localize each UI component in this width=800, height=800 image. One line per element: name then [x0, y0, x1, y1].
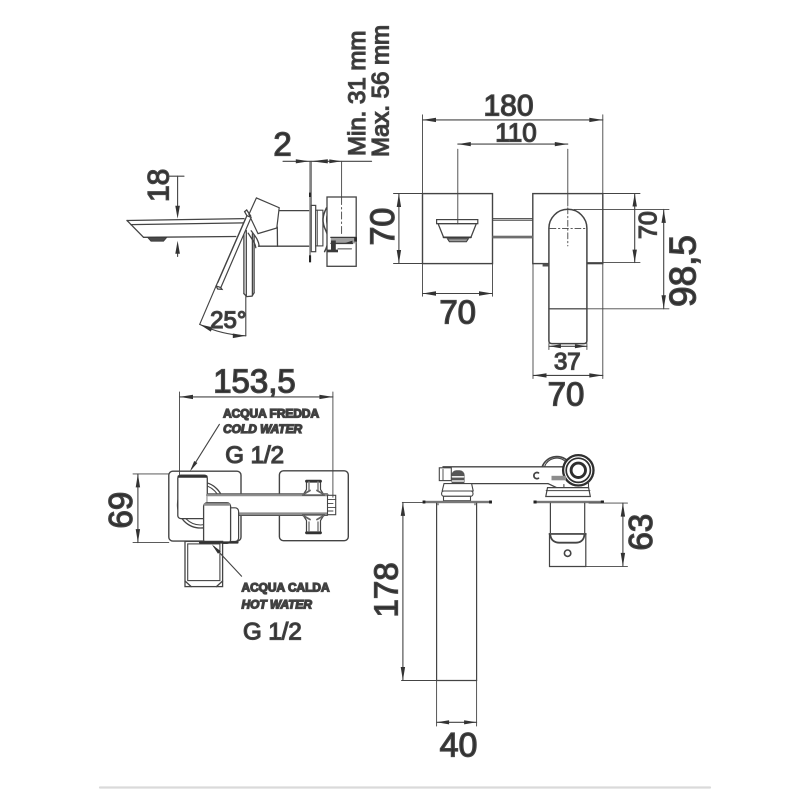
body neck curves	[248, 231, 259, 248]
cold water union block	[178, 475, 208, 518]
arm end / aerator	[439, 468, 464, 487]
cartridge profile curves	[323, 208, 331, 252]
right wall plate 70x70	[533, 194, 603, 264]
left escutcheon (plan)	[442, 484, 474, 501]
svg-text:G 1/2: G 1/2	[225, 442, 284, 469]
handle head cap	[249, 198, 279, 234]
cold valve ring	[178, 482, 224, 528]
cartridge sleeve tube	[550, 503, 586, 566]
box centerline dash-dot	[341, 198, 343, 237]
left wall plate 70x70	[423, 194, 493, 264]
spout body	[127, 218, 255, 237]
label 110	[495, 118, 536, 148]
footer separator line	[100, 786, 710, 788]
label 25deg	[210, 307, 246, 334]
svg-text:HOT WATER: HOT WATER	[242, 598, 313, 612]
notch at plate bottom	[543, 264, 549, 267]
handle lever ghost (closed position)	[244, 229, 254, 297]
dimension 40	[437, 681, 477, 727]
dimension 178	[401, 502, 437, 680]
svg-text:G 1/2: G 1/2	[243, 618, 302, 645]
svg-text:37: 37	[554, 349, 581, 376]
svg-text:ACQUA CALDA: ACQUA CALDA	[242, 581, 330, 595]
hot water leader	[212, 545, 242, 577]
hot water elbow block	[204, 503, 239, 544]
svg-text:2: 2	[273, 126, 291, 163]
label Max. 56 mm	[368, 25, 395, 157]
label 63 (rotated)	[622, 514, 659, 551]
spout supply tube	[437, 503, 477, 680]
wall section line	[309, 161, 311, 262]
label acqua calda	[242, 581, 330, 646]
spout arm (plan)	[443, 467, 564, 490]
svg-text:178: 178	[367, 562, 404, 617]
label 2	[273, 126, 291, 163]
label 70 left (rotated)	[364, 208, 402, 246]
svg-text:25°: 25°	[210, 307, 246, 334]
label 18 (rotated)	[143, 169, 176, 202]
dimension 70 bottom left plate	[423, 264, 493, 297]
svg-text:Max. 56 mm: Max. 56 mm	[368, 25, 395, 157]
handle lever (open 25deg)	[216, 210, 251, 289]
label 178 (rotated)	[367, 562, 404, 617]
faucet body cylinder	[259, 211, 309, 247]
label 98.5 (rotated)	[663, 235, 704, 307]
svg-text:69: 69	[102, 492, 139, 529]
connecting pipe between plates	[493, 219, 533, 239]
25 degree wedge lines	[200, 286, 246, 338]
dimension 180	[423, 115, 603, 194]
dimension 70 left side	[394, 194, 423, 264]
trim plate (side)	[311, 205, 316, 251]
svg-text:ACQUA FREDDA: ACQUA FREDDA	[223, 406, 319, 420]
label 70 right (rotated)	[635, 211, 663, 239]
dimension 153,5	[180, 392, 333, 497]
screw hole on arm	[534, 473, 539, 479]
label 69 (rotated)	[102, 492, 139, 529]
handle lever (front)	[549, 209, 587, 343]
dimension 69	[133, 474, 169, 543]
dimension 37	[549, 344, 587, 350]
label 153,5	[213, 363, 296, 400]
svg-text:70: 70	[548, 376, 585, 413]
label 70 bottom left	[439, 294, 476, 331]
lower inlet stub	[303, 515, 324, 533]
label acqua fredda	[223, 406, 319, 469]
body tube (plan)	[207, 494, 327, 516]
dimension 2 with min/max	[283, 159, 372, 205]
upper inlet stub	[303, 481, 324, 495]
left mounting box	[169, 471, 241, 541]
dimension 110	[458, 142, 568, 224]
svg-text:40: 40	[440, 727, 478, 765]
svg-text:153,5: 153,5	[213, 363, 296, 400]
handle centre mark	[550, 208, 585, 246]
hot water union tube	[185, 541, 238, 586]
label 40	[440, 727, 478, 765]
right wall plate edge	[534, 501, 604, 504]
aerator nozzle	[148, 238, 167, 242]
right mounting box	[279, 471, 348, 541]
left wall plate edge	[423, 501, 492, 506]
hub base joint	[552, 476, 589, 488]
svg-text:98,5: 98,5	[663, 235, 704, 307]
label 37	[554, 349, 581, 376]
svg-text:70: 70	[635, 211, 663, 239]
svg-text:110: 110	[495, 118, 536, 148]
dimension 70 right side	[587, 194, 640, 263]
flange behind plate	[316, 210, 323, 246]
svg-text:70: 70	[364, 208, 402, 246]
dimension 63	[586, 503, 628, 566]
svg-text:70: 70	[439, 294, 476, 331]
svg-text:COLD WATER: COLD WATER	[223, 422, 302, 436]
tube end fitting	[328, 495, 336, 514]
dimension 18	[170, 176, 185, 256]
in-wall box (side)	[327, 197, 357, 266]
right escutcheon (plan)	[546, 488, 591, 497]
dimension 70 bottom right plate	[533, 264, 603, 379]
dimension 98.5	[549, 209, 669, 308]
svg-text:18: 18	[143, 169, 176, 202]
handle hub circles	[563, 455, 593, 485]
cold water leader	[190, 424, 219, 471]
label Min. 31 mm	[344, 31, 371, 156]
spout outlet cup	[437, 220, 478, 242]
label 180	[483, 90, 533, 123]
svg-text:63: 63	[622, 514, 659, 551]
pivot bump arc	[542, 457, 567, 467]
label 70 bottom right	[548, 376, 585, 413]
